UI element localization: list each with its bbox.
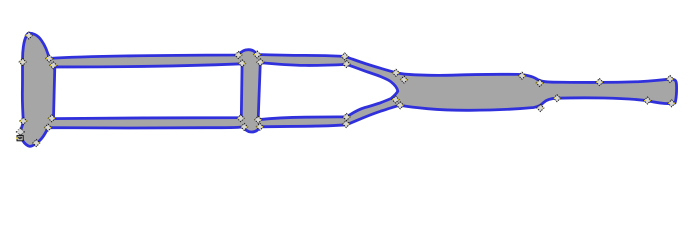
node n30 thin-bar bottom mid [644, 97, 651, 104]
node n8 bottom-bar lower-left [45, 124, 52, 131]
node n15 crossbar bottom-right inner [255, 116, 262, 123]
node n26 step top-right [536, 80, 543, 87]
node n21 junction top outer [393, 69, 400, 76]
node n1 pad top [25, 32, 32, 39]
node n10 crossbar top-left inner [239, 60, 246, 67]
node n27 step bottom-right [554, 95, 561, 102]
node n16 crossbar bottom-right outer [256, 123, 263, 130]
node n12 crossbar top-right inner [257, 59, 264, 66]
node n4 pad bottom [33, 140, 40, 147]
crutch outline path with two holes [20, 33, 676, 146]
node n19 bottom-bar kink upper [343, 114, 350, 121]
node n14 crossbar bottom-left outer [241, 123, 248, 130]
node n22 junction top inner [401, 76, 408, 83]
node n5 pad right top [46, 55, 53, 62]
node n28 step bottom-left [537, 105, 544, 112]
node n32 tip bottom [668, 100, 675, 107]
node n31 tip top [667, 76, 674, 83]
node n24 junction bottom lower [397, 102, 404, 109]
node n6 top-bar upper-left [50, 62, 57, 69]
start node square icon [16, 136, 23, 141]
node n20 bottom-bar kink lower [343, 121, 350, 128]
node n9 crossbar top-left outer [235, 52, 242, 59]
node n2 pad left upper [19, 59, 26, 66]
node n11 crossbar top-right outer [254, 51, 261, 58]
start node selected marker [16, 127, 25, 135]
node n13 crossbar bottom-left inner [237, 115, 244, 122]
node n7 bottom-bar upper-left [48, 115, 55, 122]
node n25 step top-left [519, 72, 526, 79]
node n18 top-bar kink lower [343, 61, 350, 68]
node n17 top-bar kink upper [341, 53, 348, 60]
node n3 pad left lower [20, 118, 27, 125]
node n29 thin-bar top mid [596, 79, 603, 86]
node n23 junction bottom upper [392, 96, 399, 103]
